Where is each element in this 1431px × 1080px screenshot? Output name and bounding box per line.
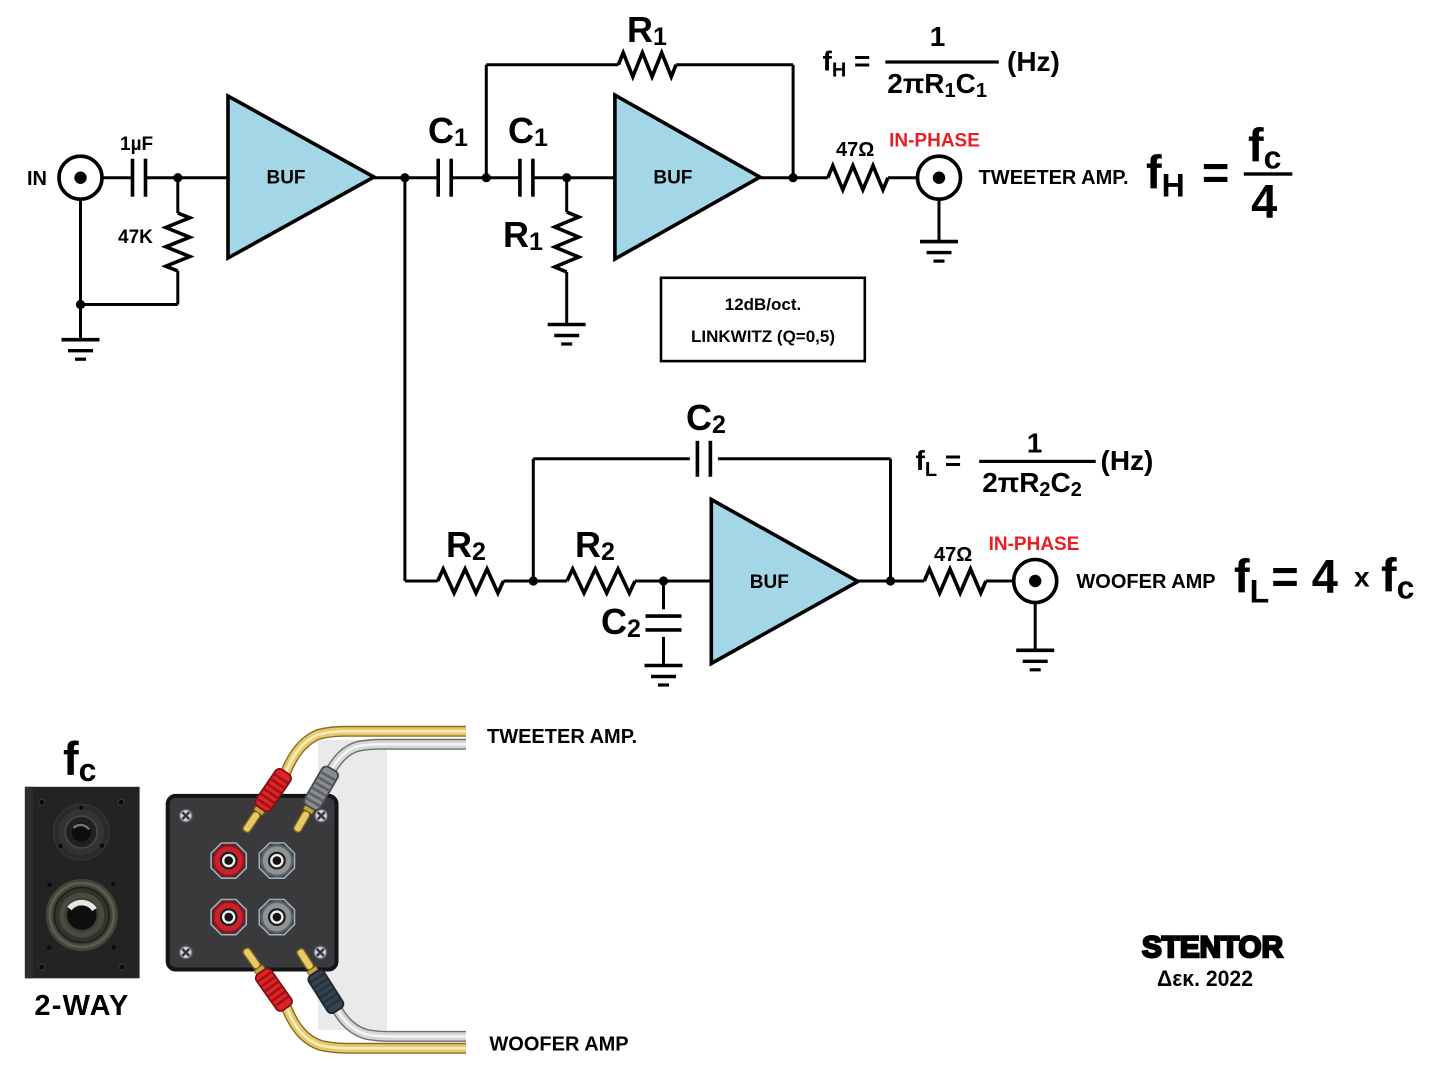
label C2 feedback [686, 397, 726, 439]
wire [760, 176, 828, 179]
svg-text:1: 1 [1027, 427, 1043, 458]
wire [102, 176, 133, 179]
resistor R1 feedback [618, 53, 676, 77]
resistor R2 first lowpass [438, 569, 504, 593]
svg-text:1: 1 [930, 21, 946, 52]
banana plug dark woofer [291, 945, 345, 1015]
wire lower feedback top left [533, 457, 690, 460]
svg-text:C2: C2 [686, 397, 726, 439]
wire [405, 580, 438, 583]
svg-text:47Ω: 47Ω [836, 139, 874, 161]
wire [888, 176, 918, 179]
resistor 47R tweeter output [828, 139, 888, 190]
junction at IN ground return [76, 300, 85, 309]
wire lower feedback right riser [889, 459, 892, 581]
formula fH = fc/4 [1146, 119, 1292, 228]
banana plug red tweeter [238, 767, 293, 837]
svg-text:47K: 47K [118, 227, 153, 248]
wire lower feedback top right [718, 457, 891, 460]
node E feedback tap [529, 576, 538, 585]
wire feedback top right [676, 63, 793, 66]
capacitor C1 second highpass [520, 159, 533, 197]
screw panel top-right [315, 809, 328, 822]
resistor 47K input shunt [118, 178, 190, 305]
svg-text:LINKWITZ (Q=0,5): LINKWITZ (Q=0,5) [691, 327, 835, 346]
cable yellow tweeter + [286, 731, 467, 773]
svg-text:R1: R1 [503, 214, 543, 256]
cable silver woofer - [337, 1009, 466, 1036]
svg-text:WOOFER AMP: WOOFER AMP [489, 1034, 628, 1056]
formula fH = 1/(2piR1C1) (Hz) [823, 21, 1060, 102]
svg-text:TWEETER AMP.: TWEETER AMP. [487, 726, 637, 748]
node D tweeter output [789, 173, 798, 182]
label R2 second [575, 524, 615, 566]
speaker terminal panel [168, 796, 337, 970]
backdrop panel shadow [318, 740, 387, 1030]
svg-text:47Ω: 47Ω [934, 544, 972, 566]
wire [146, 176, 229, 179]
connector J3 woofer out [1014, 560, 1057, 603]
label C1 second [508, 110, 548, 152]
ground tweeter jack [920, 242, 958, 262]
banana plug gray tweeter [288, 765, 340, 836]
binding post gray bottom [259, 900, 294, 935]
formula fL = 4 x fc [1234, 549, 1414, 610]
svg-text:12dB/oct.: 12dB/oct. [725, 295, 802, 314]
op-amp U1 BUF input buffer [228, 96, 374, 258]
wire node A down to woofer branch [403, 178, 406, 581]
svg-text:1µF: 1µF [120, 134, 153, 155]
svg-text:fH =: fH = [823, 46, 871, 82]
screw panel top-left [179, 809, 192, 822]
svg-text:fc: fc [1381, 549, 1414, 606]
node G woofer output [886, 576, 895, 585]
binding post gray top [259, 843, 294, 878]
node A splitter [400, 173, 409, 182]
capacitor C2 shunt to ground [646, 581, 682, 665]
svg-text:TWEETER AMP.: TWEETER AMP. [979, 167, 1129, 189]
wire [858, 580, 924, 583]
ground R1 shunt [548, 325, 586, 345]
cable silver tweeter - [331, 744, 467, 771]
speaker tweeter [52, 803, 111, 862]
svg-text:fc: fc [1248, 119, 1281, 176]
svg-text:STENTOR: STENTOR [1142, 931, 1283, 964]
wire [533, 176, 615, 179]
wire [81, 303, 178, 306]
svg-text:BUF: BUF [750, 572, 789, 593]
svg-text:Δεκ. 2022: Δεκ. 2022 [1157, 966, 1253, 991]
wire woofer jack to ground [1034, 603, 1037, 649]
svg-text:fH =: fH = [1146, 146, 1229, 204]
resistor R2 second lowpass [567, 569, 635, 593]
svg-text:fL =: fL = [916, 445, 962, 481]
svg-text:BUF: BUF [266, 168, 305, 189]
banana plug red woofer [238, 944, 294, 1013]
resistor R1 shunt to ground [555, 178, 579, 324]
svg-text:fc: fc [63, 732, 96, 788]
resistor 47R woofer output [924, 544, 986, 593]
binding post red top [211, 843, 246, 878]
svg-text:fL= 4: fL= 4 [1234, 549, 1338, 609]
screw panel bottom-right [314, 946, 327, 959]
wire tweeter jack to ground [938, 199, 941, 240]
svg-text:C1: C1 [428, 110, 468, 152]
svg-text:BUF: BUF [653, 168, 692, 189]
label C1 first [428, 110, 468, 152]
svg-text:(Hz): (Hz) [1007, 46, 1060, 77]
svg-text:2πR1C1: 2πR1C1 [887, 68, 987, 102]
node F [659, 576, 668, 585]
node B feedback tap [482, 173, 491, 182]
op-amp U3 BUF woofer [711, 500, 858, 664]
capacitor C2 feedback [697, 441, 710, 477]
node after 1uF cap [173, 173, 182, 182]
binding post red bottom [211, 900, 246, 935]
connector J2 tweeter out [918, 156, 961, 199]
wire feedback left riser [485, 65, 488, 178]
svg-text:IN-PHASE: IN-PHASE [989, 534, 1080, 555]
svg-text:x: x [1354, 561, 1370, 592]
svg-text:C2: C2 [601, 601, 641, 643]
svg-text:IN: IN [27, 168, 47, 190]
svg-text:WOOFER AMP: WOOFER AMP [1076, 571, 1215, 593]
wire feedback right riser [792, 65, 795, 178]
formula fL = 1/(2piR2C2) (Hz) [916, 427, 1154, 501]
screw panel bottom-left [179, 946, 192, 959]
svg-text:2-WAY: 2-WAY [34, 990, 129, 1022]
label C2 shunt [601, 601, 641, 643]
speaker woofer [45, 878, 119, 952]
svg-text:2πR2C2: 2πR2C2 [982, 467, 1082, 501]
cable yellow woofer + [287, 1008, 467, 1049]
wire [374, 176, 438, 179]
op-amp U2 BUF tweeter [615, 95, 760, 259]
svg-text:R2: R2 [575, 524, 615, 566]
wire [451, 176, 520, 179]
wire [986, 580, 1014, 583]
speaker cabinet 2-way [25, 787, 140, 979]
svg-text:R1: R1 [627, 9, 667, 51]
label R2 first [446, 524, 486, 566]
ground woofer jack [1016, 650, 1054, 670]
svg-text:(Hz): (Hz) [1101, 445, 1154, 476]
node C [562, 173, 571, 182]
label R1 shunt [503, 214, 543, 256]
svg-text:4: 4 [1251, 175, 1277, 228]
capacitor C1 first highpass [438, 159, 451, 197]
wire feedback top left [486, 63, 618, 66]
wire lower feedback left riser [532, 459, 535, 581]
box 12dB/oct LINKWITZ [661, 278, 865, 361]
label R1 feedback [627, 9, 667, 51]
connector J1 IN [59, 156, 102, 199]
capacitor 1uF input [120, 134, 153, 197]
svg-text:R2: R2 [446, 524, 486, 566]
svg-text:C1: C1 [508, 110, 548, 152]
wire [503, 580, 567, 583]
wire [635, 580, 711, 583]
svg-text:IN-PHASE: IN-PHASE [889, 131, 980, 152]
ground C2 shunt [645, 666, 683, 686]
wire IN shield to ground [79, 199, 82, 338]
ground input [62, 340, 100, 360]
